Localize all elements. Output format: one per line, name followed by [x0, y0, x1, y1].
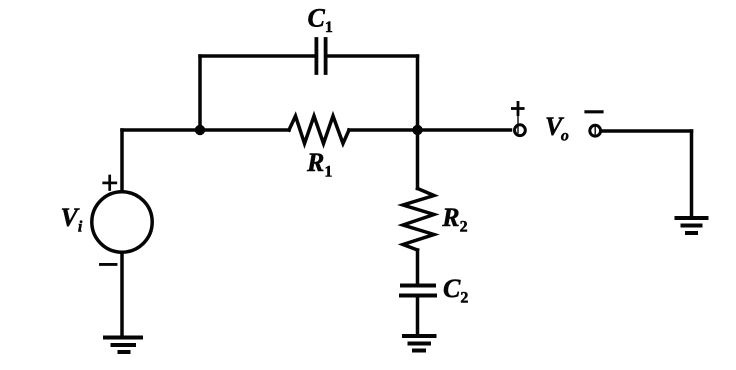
- capacitor C2: [401, 286, 435, 296]
- wire: left vertical from corner down to Vi source: [120, 130, 124, 192]
- wire: main horizontal right segment (R1 to + terminal): [349, 128, 511, 132]
- node B: [412, 125, 422, 135]
- ground (below Vi): [105, 338, 141, 353]
- wire: node B down to R2: [416, 130, 420, 189]
- wire: top loop right vertical down to node B: [416, 56, 420, 130]
- plus sign (Vi): [104, 176, 116, 190]
- source Vi: [92, 192, 152, 252]
- wire: right vertical down to ground: [690, 131, 694, 218]
- terminal + (open circle): [515, 125, 526, 136]
- svg-text:C1: C1: [308, 4, 333, 37]
- resistor R1: [289, 116, 349, 144]
- wire: thin stem into + terminal: [517, 115, 519, 133]
- resistor R2: [403, 189, 434, 251]
- svg-text:R1: R1: [306, 148, 332, 181]
- plus sign (Vo + terminal): [512, 102, 523, 114]
- svg-text:Vo: Vo: [545, 112, 569, 145]
- wire: tick inside - terminal: [594, 126, 596, 135]
- wire: - terminal to right corner: [602, 129, 692, 133]
- wire: top loop left (to C1 left plate): [200, 54, 315, 58]
- node A: [195, 125, 205, 135]
- ground (below C2): [404, 336, 435, 351]
- minus sign (Vo - terminal): [586, 110, 602, 113]
- terminal - (open circle): [590, 125, 601, 136]
- ground (right): [677, 218, 707, 233]
- wire: node A up to top loop: [198, 56, 202, 130]
- wire: Vi bottom to ground: [120, 252, 124, 337]
- svg-text:R2: R2: [441, 203, 467, 236]
- wire: R2 to C2: [416, 250, 420, 285]
- wire: C2 to ground: [416, 296, 420, 337]
- wire: top loop right (C1 right plate to corner): [328, 54, 418, 58]
- svg-text:C2: C2: [443, 274, 468, 307]
- capacitor C1: [316, 39, 325, 73]
- wire: main horizontal left segment (Vi top corner to R1): [122, 128, 289, 132]
- minus sign (Vi): [101, 263, 117, 266]
- svg-text:Vi: Vi: [61, 203, 83, 236]
